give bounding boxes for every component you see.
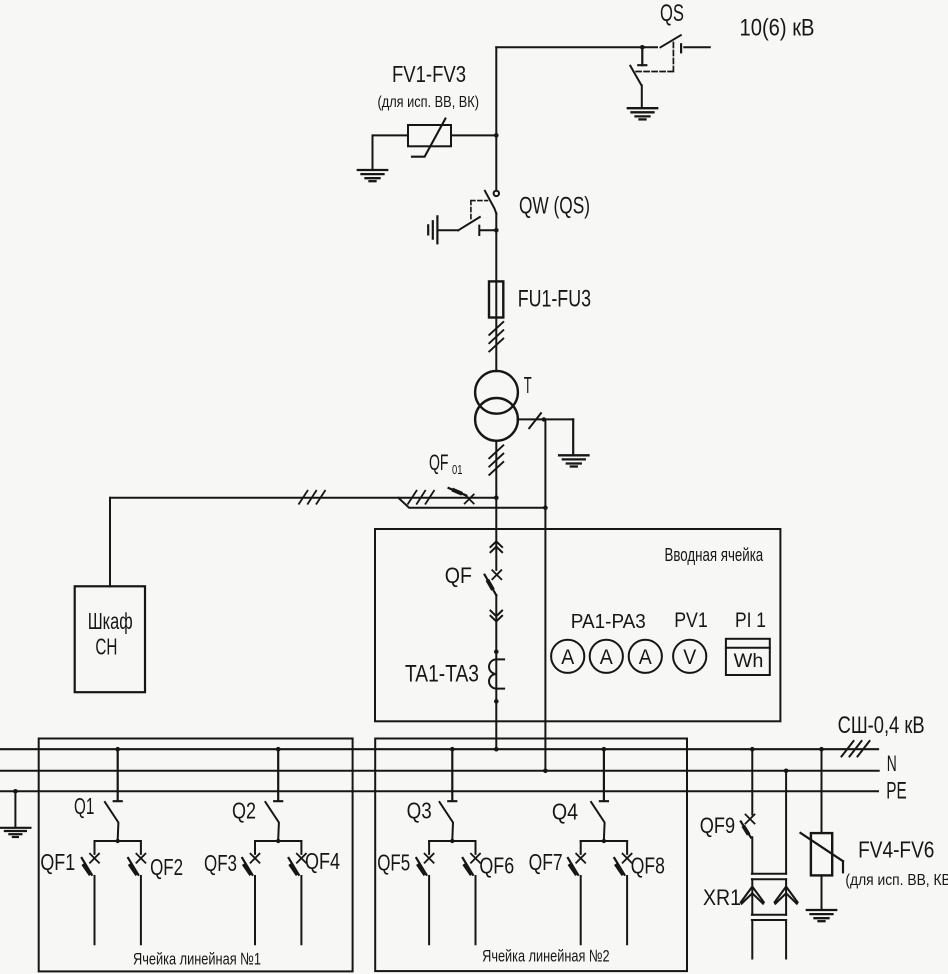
svg-text:PE: PE [886, 778, 907, 805]
svg-text:Ячейка линейная №2: Ячейка линейная №2 [482, 947, 610, 966]
svg-text:PI 1: PI 1 [735, 609, 766, 632]
svg-text:Q4: Q4 [552, 799, 578, 825]
svg-text:QF7: QF7 [529, 849, 563, 875]
svg-text:QF1: QF1 [40, 849, 75, 875]
svg-text:A: A [600, 646, 613, 669]
svg-text:Вводная ячейка: Вводная ячейка [665, 544, 764, 565]
svg-text:Q2: Q2 [232, 798, 256, 824]
svg-text:A: A [639, 646, 652, 669]
svg-text:Шкаф: Шкаф [88, 608, 133, 634]
svg-text:QF9: QF9 [700, 813, 735, 838]
svg-text:(для исп. ВВ, КВ): (для исп. ВВ, КВ) [845, 872, 948, 889]
svg-text:QF3: QF3 [204, 850, 237, 876]
svg-text:PA1-PA3: PA1-PA3 [571, 611, 646, 633]
svg-text:QF: QF [429, 450, 449, 475]
svg-text:СН: СН [95, 633, 117, 659]
svg-text:QF6: QF6 [479, 853, 514, 879]
svg-text:10(6) кВ: 10(6) кВ [740, 14, 815, 41]
svg-text:QF2: QF2 [150, 854, 183, 880]
svg-text:Q1: Q1 [74, 793, 94, 819]
svg-text:Q3: Q3 [407, 798, 432, 824]
svg-text:A: A [561, 646, 574, 669]
svg-text:01: 01 [452, 462, 463, 477]
svg-text:СШ-0,4 кВ: СШ-0,4 кВ [838, 712, 925, 739]
svg-text:N: N [887, 751, 897, 776]
svg-text:QW (QS): QW (QS) [519, 193, 590, 220]
svg-text:QF8: QF8 [631, 853, 665, 879]
svg-text:V: V [683, 646, 696, 669]
svg-text:XR1: XR1 [703, 885, 741, 910]
svg-text:FV1-FV3: FV1-FV3 [392, 61, 466, 87]
svg-text:Ячейка линейная №1: Ячейка линейная №1 [133, 950, 261, 969]
svg-text:FV4-FV6: FV4-FV6 [858, 837, 934, 863]
svg-text:QS: QS [660, 0, 684, 27]
svg-text:FU1-FU3: FU1-FU3 [518, 286, 591, 313]
svg-text:QF5: QF5 [377, 850, 410, 876]
svg-text:TA1-TA3: TA1-TA3 [405, 661, 479, 688]
svg-text:QF: QF [445, 563, 472, 588]
svg-text:Wh: Wh [734, 651, 764, 672]
svg-text:PV1: PV1 [674, 609, 708, 632]
svg-text:QF4: QF4 [305, 848, 340, 874]
svg-text:T: T [524, 372, 532, 398]
svg-text:(для исп. ВВ, ВК): (для исп. ВВ, ВК) [378, 94, 480, 111]
